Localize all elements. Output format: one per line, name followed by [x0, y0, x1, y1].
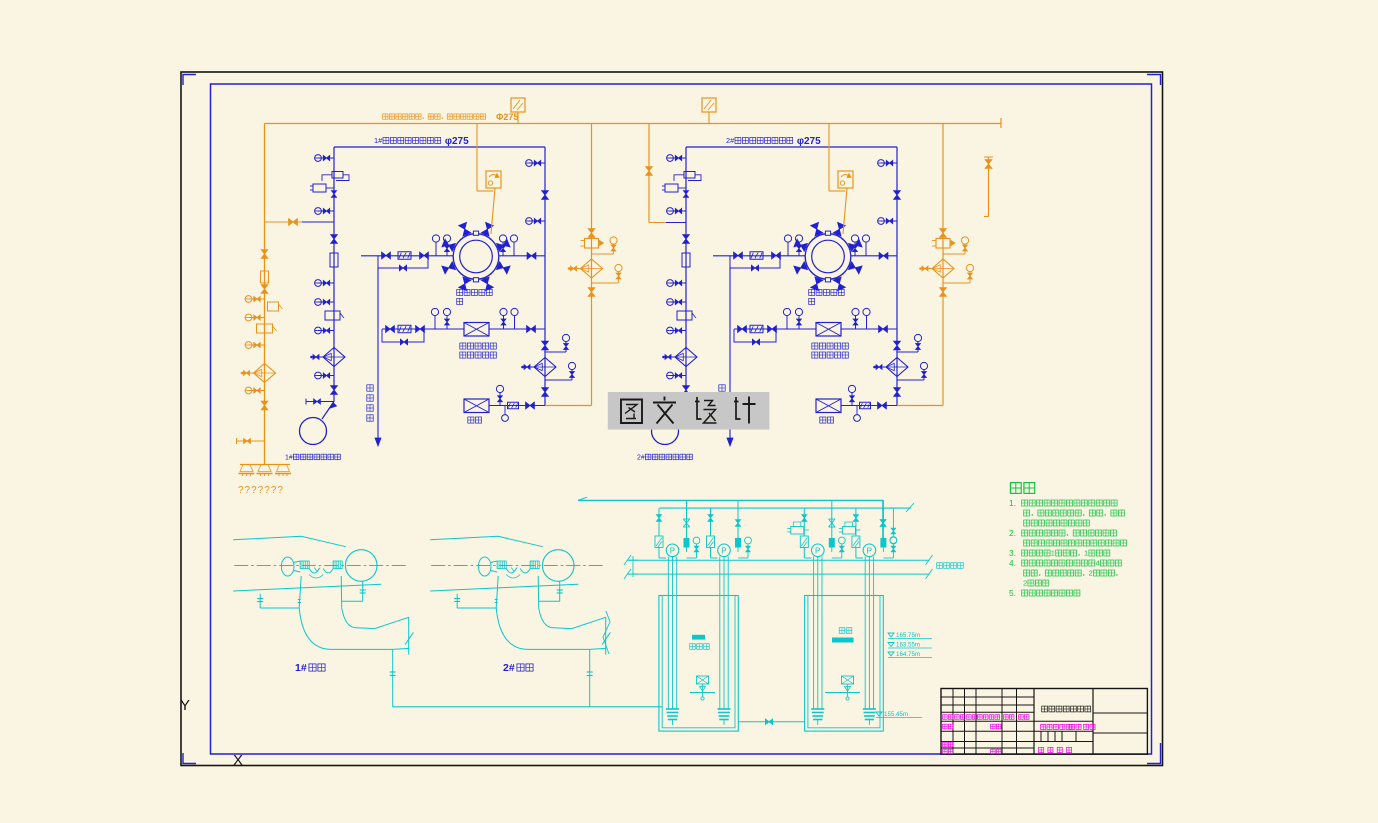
gauge pair right of generator cooler	[851, 235, 858, 242]
bypass loop upper	[378, 256, 428, 269]
wire: 1号机组 left inlet column	[333, 147, 335, 392]
svg-text:#: #	[641, 454, 645, 461]
label: backup water main pipe phi275	[383, 114, 388, 119]
gauge branch upper	[545, 351, 566, 353]
label: machine hall floor	[937, 563, 943, 569]
turbine section 1#机组: centerline	[234, 565, 408, 567]
thrust bearing cooler	[464, 323, 489, 337]
blue corner tick bottom-left	[183, 753, 196, 764]
gauge branch upper	[897, 351, 918, 353]
valve	[772, 252, 776, 259]
sump well 2 walls	[805, 596, 884, 732]
svg-text:2: 2	[1089, 569, 1093, 578]
bypass loop upper	[730, 256, 780, 269]
floor contour line	[430, 584, 578, 591]
svg-text:1.: 1.	[1009, 498, 1016, 508]
wire: bend to spiral-case intake	[333, 392, 335, 402]
watermark text TU (drawing)	[621, 400, 642, 424]
svg-text:163.55m: 163.55m	[896, 642, 920, 649]
flow meter	[508, 402, 519, 409]
valve	[261, 401, 268, 405]
strainer	[675, 348, 697, 367]
wire: 1号机组 main supply top line	[334, 146, 545, 148]
title block magenta labels row2	[943, 724, 948, 729]
pressure reducing valve assembly	[684, 172, 695, 179]
svg-text:2: 2	[1023, 579, 1027, 588]
label: bottom cooler	[468, 417, 474, 423]
pressure reducing valve assembly	[332, 172, 343, 179]
gauge	[529, 162, 545, 164]
blue corner tick top-left	[183, 75, 196, 86]
wire: backup column to unit junction	[897, 405, 943, 407]
gauge	[881, 162, 897, 164]
gauge	[249, 344, 265, 346]
valve	[646, 167, 653, 171]
valve	[894, 388, 901, 392]
right drain from rotor	[559, 582, 561, 602]
watermark grey box	[608, 392, 770, 430]
motorized valve box (orange)	[486, 171, 501, 188]
generator air cooler 1号机组	[453, 234, 499, 280]
gauge pair before thrust cooler	[431, 308, 438, 315]
draft tube elbow outer curve	[299, 608, 393, 650]
gauge branch lower	[545, 379, 572, 381]
wire: bottom row line	[841, 405, 897, 407]
gauge	[670, 157, 686, 159]
float switch well 1	[697, 676, 709, 684]
svg-text:1: 1	[1084, 549, 1088, 558]
svg-text:Y: Y	[180, 697, 190, 714]
wire: 2号机组 left inlet column	[685, 147, 687, 392]
wire: orange line to generator cooler	[843, 188, 847, 234]
gauge	[670, 282, 686, 284]
wire: discharge manifold lower	[660, 507, 911, 509]
svg-text:P: P	[670, 547, 675, 556]
gauge below bottom row	[854, 415, 861, 422]
watermark text SHE (design)	[695, 397, 702, 419]
valve	[768, 326, 772, 333]
float switch well 2	[842, 676, 854, 684]
wire: sprinkler header	[240, 464, 290, 466]
tank symbol T2 on main	[702, 98, 716, 112]
gauge	[881, 220, 897, 222]
svg-text:164.75m: 164.75m	[896, 651, 920, 658]
valve	[526, 402, 530, 409]
svg-text:2.: 2.	[1009, 528, 1016, 538]
svg-text:1#: 1#	[295, 662, 307, 674]
ground break zigzag left of wells	[603, 611, 610, 654]
flow meter	[750, 252, 763, 260]
strainer	[932, 259, 954, 278]
wire: backup supply column	[591, 124, 593, 406]
generator air cooler 2号机组	[805, 234, 851, 280]
upstream hub ellipse	[281, 557, 294, 576]
wire: upper cooler feed line	[713, 255, 806, 257]
valve	[261, 285, 268, 289]
gauge pair before thrust cooler	[783, 308, 790, 315]
wire: drain to tailrace	[729, 268, 731, 438]
valve	[940, 288, 947, 292]
wire: branch to unit1 inlet (orange part)	[265, 221, 303, 223]
thrust bearing cooler	[816, 323, 841, 337]
valve	[542, 191, 549, 195]
valve	[331, 386, 338, 390]
label: sump well 2	[839, 628, 845, 634]
drainage pump unit	[710, 508, 712, 536]
title block outer border	[941, 689, 1147, 755]
wire: discharge manifold upper	[578, 499, 883, 501]
gauge	[670, 375, 686, 377]
wire: cooler outlet	[841, 328, 897, 330]
drainage pump unit	[855, 508, 857, 536]
draft tube cone sides	[299, 576, 301, 608]
gauge	[318, 210, 334, 212]
right drain from rotor	[362, 582, 364, 602]
valve	[878, 402, 882, 409]
valve	[420, 252, 424, 259]
label: drain to tailrace (vertical)	[719, 385, 725, 391]
wire: backup column to unit junction	[545, 405, 592, 407]
drain pipe to collector	[589, 649, 591, 706]
gauge pair left of generator cooler	[432, 235, 439, 242]
drain stub with valve	[306, 401, 334, 403]
wire: well interconnect pipe	[738, 721, 804, 723]
svg-text:1: 1	[1051, 549, 1055, 558]
machine hall floor lines	[627, 559, 930, 561]
label: drain to tailrace (vertical)	[367, 385, 373, 391]
flow restrictor box	[682, 253, 690, 267]
component box	[261, 271, 269, 283]
datum mark left of pump bay	[628, 556, 638, 577]
valve	[894, 191, 901, 195]
svg-text:3.: 3.	[1009, 548, 1016, 558]
component box	[325, 311, 340, 320]
valve	[683, 386, 690, 390]
valve	[382, 252, 386, 259]
gauge pair left of generator cooler	[784, 235, 791, 242]
elevation marks beside wells	[888, 633, 894, 637]
valve	[894, 341, 901, 345]
valve	[588, 288, 595, 292]
valve	[386, 326, 390, 333]
svg-text:4.: 4.	[1009, 558, 1016, 568]
watermark text WEN (culture)	[653, 397, 676, 403]
gauge pair right of generator cooler	[499, 235, 506, 242]
title block magenta labels row3	[943, 742, 948, 747]
notes heading shuoming	[1010, 483, 1021, 494]
draft tube elbow inner curve	[539, 608, 572, 629]
wire: drain to tailrace	[377, 268, 379, 438]
drain stub with valve	[658, 401, 686, 403]
bypass loop lower	[382, 329, 424, 342]
valve	[289, 219, 293, 226]
gauge branch upper	[943, 253, 965, 255]
wire: bottom row line	[489, 405, 545, 407]
gauge above bottom row	[848, 385, 855, 392]
wire: orange riser to cooling water valve	[476, 124, 478, 192]
drainage pump unit	[658, 508, 660, 536]
relief valve assembly	[268, 302, 279, 311]
wire: 1号机组 right return column	[544, 147, 546, 406]
label: generator cooler	[457, 290, 463, 296]
wire: branch to unit1 inlet (blue part)	[302, 221, 334, 223]
svg-text:P: P	[867, 547, 872, 556]
gauge	[670, 330, 686, 332]
drain pipe to collector	[392, 649, 394, 706]
svg-text:φ275: φ275	[797, 136, 821, 147]
strainer	[886, 358, 908, 377]
wire: bend to spiral-case intake	[685, 392, 687, 402]
label: thrust bearing cooler	[812, 343, 818, 349]
title block magenta project name	[1041, 724, 1046, 729]
gauge	[318, 282, 334, 284]
draft tube outlet diffuser	[375, 617, 409, 628]
pump cooler bottom	[464, 399, 489, 413]
wire: lower cooler feed line	[382, 328, 464, 330]
gauge	[249, 390, 265, 392]
valve	[738, 326, 742, 333]
booster pump	[936, 239, 950, 249]
svg-text:X: X	[233, 752, 243, 769]
floor contour line	[233, 584, 381, 591]
valve	[527, 326, 531, 333]
component box assembly	[257, 324, 273, 333]
left drain stub	[259, 594, 261, 608]
wire: unit2 inlet horizontal	[649, 222, 666, 224]
gauge	[318, 157, 334, 159]
strainer	[323, 348, 345, 367]
label: thrust bearing cooler	[460, 343, 466, 349]
pump motor symbol	[842, 527, 855, 535]
valve	[527, 252, 531, 259]
gauge	[529, 220, 545, 222]
wire: drainage collector to sump	[393, 706, 662, 708]
gauge	[670, 210, 686, 212]
gauge	[318, 301, 334, 303]
spare branch right	[882, 500, 884, 540]
left drain stub	[456, 594, 458, 608]
svg-text:2#: 2#	[503, 662, 515, 674]
blue corner tick bottom-right	[1147, 743, 1161, 764]
booster pump	[585, 239, 599, 249]
draft tube cone sides	[496, 576, 498, 608]
svg-text:5.: 5.	[1009, 588, 1016, 598]
generator rotor circle	[345, 550, 377, 582]
wire: cooler outlet to right column	[499, 255, 545, 257]
sump well 1 walls	[659, 596, 738, 732]
label: sump well 1	[692, 635, 705, 640]
gauge	[670, 301, 686, 303]
wire: capped orange stub far right	[988, 157, 990, 217]
sprinkler nozzles	[240, 465, 253, 472]
pump motor symbol	[791, 527, 804, 535]
svg-text:#: #	[289, 454, 293, 461]
gauge pair after thrust cooler	[852, 308, 859, 315]
wire: riser to tank T1	[517, 112, 519, 124]
gauge branch lower	[897, 379, 924, 381]
penstock upper contour	[233, 536, 346, 546]
motorized valve box (orange)	[838, 171, 853, 188]
wire: 2号机组 main supply top line	[686, 146, 897, 148]
flow meter	[860, 402, 871, 409]
wire: left backup column vertical	[264, 124, 266, 465]
flow meter	[398, 252, 411, 260]
generator rotor circle	[542, 550, 574, 582]
wire: cooler outlet to right column	[851, 255, 897, 257]
svg-text:???????: ???????	[238, 485, 284, 496]
component box	[677, 311, 692, 320]
strainer	[534, 358, 556, 377]
gauge	[249, 317, 265, 319]
turbine section 2#机组: centerline	[431, 565, 605, 567]
label: bottom cooler	[820, 417, 826, 423]
svg-text:P: P	[815, 547, 820, 556]
gauge pair after thrust cooler	[500, 308, 507, 315]
flow meter	[398, 325, 411, 333]
valve	[542, 341, 549, 345]
wire: lower cooler feed line	[734, 328, 816, 330]
draft tube elbow inner curve	[342, 608, 375, 629]
title block drawing title	[1042, 706, 1048, 712]
wire: orange drop to unit2 inlet	[648, 124, 650, 223]
wire: orange riser to cooling water valve	[828, 124, 830, 192]
cooler ring tabs	[473, 231, 478, 235]
blue inner border frame	[211, 84, 1152, 754]
wire: cooler outlet	[489, 328, 545, 330]
svg-text:4: 4	[1096, 559, 1100, 568]
wire: backup/fire/domestic water main, horizontal	[265, 123, 1002, 125]
gauge	[318, 330, 334, 332]
tank symbol T1 on main	[511, 98, 525, 112]
gauge below bottom row	[502, 415, 509, 422]
valve	[879, 252, 883, 259]
strainer	[254, 364, 276, 383]
upstream hub ellipse	[478, 557, 491, 576]
svg-text:Φ275: Φ275	[496, 112, 518, 122]
cooler ring tabs	[825, 231, 830, 235]
gauge above bottom row	[496, 385, 503, 392]
valve	[416, 326, 420, 333]
black outer border frame	[181, 72, 1163, 766]
drainage pump unit	[803, 508, 805, 536]
valve	[940, 229, 947, 233]
wire: riser to tank T2	[708, 112, 710, 124]
title block grid lines	[941, 696, 1034, 698]
flow restrictor box	[330, 253, 338, 267]
valve	[588, 229, 595, 233]
strainer	[581, 259, 603, 278]
title block magenta sheet numbering	[1039, 747, 1044, 752]
gauge branch upper	[592, 253, 614, 255]
draft tube elbow outer curve	[496, 608, 590, 650]
valve	[261, 250, 268, 254]
wire: upper cooler feed line	[361, 255, 454, 257]
valve	[734, 252, 738, 259]
draft tube outlet diffuser	[572, 617, 606, 628]
end tick of main	[1000, 118, 1002, 128]
label: generator cooler	[809, 290, 815, 296]
spiral case intake circle 2号机组	[652, 418, 679, 445]
bypass loop lower	[734, 329, 776, 342]
blue corner tick top-right	[1147, 75, 1161, 86]
gauge	[249, 298, 265, 300]
valve	[331, 235, 338, 239]
gauge branch lower	[592, 282, 619, 284]
wire: backup supply column	[942, 124, 944, 406]
gauge branch lower	[943, 282, 970, 284]
valve	[542, 388, 549, 392]
low water elevation mark	[876, 712, 882, 716]
svg-text:155.45m: 155.45m	[884, 711, 908, 718]
svg-text:P: P	[721, 547, 726, 556]
gauge	[318, 375, 334, 377]
shaft ribbed blocks and seals	[299, 561, 301, 569]
drain stub with valve	[237, 440, 265, 442]
valve	[683, 235, 690, 239]
spiral case intake circle 1号机组	[300, 418, 327, 445]
wire: orange line to generator cooler	[491, 188, 495, 234]
flow meter	[750, 325, 763, 333]
svg-text:φ275: φ275	[445, 136, 469, 147]
svg-text:165.75m: 165.75m	[896, 632, 920, 639]
wire: 2号机组 right return column	[896, 147, 898, 406]
valve	[879, 326, 883, 333]
watermark text JI (plan)	[734, 397, 741, 419]
title block magenta labels row1	[943, 715, 948, 720]
penstock upper contour	[430, 536, 543, 546]
shaft ribbed blocks and seals	[496, 561, 498, 569]
pump cooler bottom	[816, 399, 841, 413]
